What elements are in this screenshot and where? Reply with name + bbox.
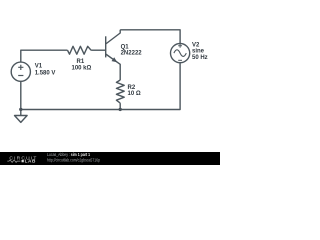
V2 minus [178, 59, 182, 61]
svg-text:10 Ω: 10 Ω [128, 91, 141, 97]
voltage source V1 circle [11, 62, 30, 81]
svg-text:R2: R2 [128, 85, 136, 91]
watermark bar [0, 152, 220, 165]
svg-text:V1: V1 [35, 63, 43, 69]
svg-text:■LAB: ■LAB [21, 159, 36, 164]
svg-text:http://circuitlab.com/c2gbsca5: http://circuitlab.com/c2gbsca5716p [47, 157, 101, 162]
wire base rail left: V1 top corner to R1 [21, 50, 68, 62]
wire R1 to Q1 base [91, 49, 106, 51]
wire V1 bottom [20, 81, 22, 109]
wire R2 bottom to rail [119, 103, 121, 109]
voltage source V2 circle [171, 44, 190, 63]
wire top rail Q1 to V2 [120, 30, 180, 44]
logo zigzag [7, 160, 20, 163]
svg-text:R1: R1 [77, 59, 85, 65]
svg-text:100 kΩ: 100 kΩ [72, 65, 92, 71]
Q1 emitter arrow [112, 57, 118, 62]
transistor Q1 bar [105, 36, 107, 57]
V1 minus [18, 75, 23, 77]
ground [15, 110, 28, 123]
V2 sine glyph [174, 50, 186, 57]
svg-text:sine: sine [192, 49, 205, 55]
V2 plus [178, 44, 182, 48]
junction R2 bottom [119, 108, 122, 111]
resistor R1 [68, 46, 92, 54]
svg-text:V2: V2 [192, 43, 200, 49]
resistor R2 [116, 80, 124, 103]
V1 plus [18, 65, 23, 70]
svg-text:1.580 V: 1.580 V [35, 71, 56, 77]
Q1 collector [106, 30, 121, 44]
svg-text:50 Hz: 50 Hz [192, 55, 208, 61]
Q1 emitter [106, 54, 121, 80]
wire V2 bottom to rail [120, 63, 180, 110]
wire bottom rail [21, 109, 120, 111]
junction ground/V1 [19, 108, 22, 111]
svg-text:2N2222: 2N2222 [121, 50, 143, 56]
